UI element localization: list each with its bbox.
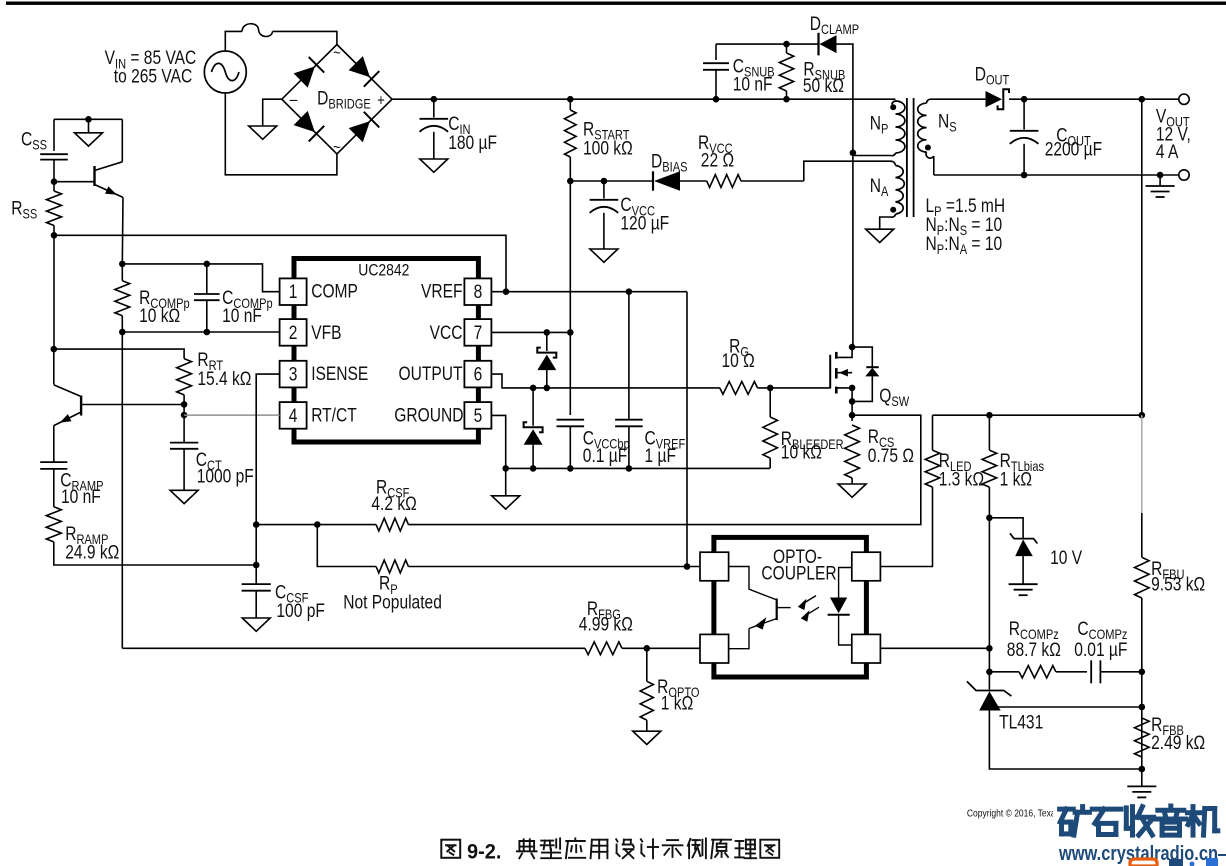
resistor RCSF 4.2k <box>256 476 417 531</box>
resistor RRAMP 24.9k <box>46 507 256 565</box>
capacitor CCSF 100pF <box>242 581 325 621</box>
svg-text:1: 1 <box>289 281 298 303</box>
resistor RSTART 100k <box>565 99 633 181</box>
svg-text:RT/CT: RT/CT <box>311 404 357 426</box>
diode DBIAS <box>651 150 687 191</box>
ground: CIN <box>420 159 448 172</box>
wire: VOUT feedback drop <box>1141 99 1143 418</box>
earth ground: RFBB <box>1127 769 1156 797</box>
schottky diode D1 (VCC clamp) <box>537 332 556 388</box>
terminal VOUT- <box>1179 170 1189 180</box>
diode DOUT schottky <box>975 63 1010 109</box>
optocoupler box <box>714 537 867 677</box>
svg-text:5: 5 <box>474 404 483 426</box>
capacitor CRAMP 10nF <box>40 461 103 507</box>
wire: VCC feed line y181 <box>567 178 653 185</box>
earth ground: output return <box>1146 175 1175 197</box>
svg-text:2200 µF: 2200 µF <box>1045 138 1102 160</box>
svg-text:3: 3 <box>289 363 298 385</box>
svg-text:50 kΩ: 50 kΩ <box>803 75 844 97</box>
capacitor CVREF 1uF <box>615 292 686 469</box>
resistor RFBG 4.99k <box>122 597 700 654</box>
wire: opto LED cathode to TL431 <box>880 518 992 690</box>
zener diode 10V <box>986 515 1082 585</box>
wire: pin7 VCC net <box>491 329 573 336</box>
svg-text:VCC: VCC <box>430 321 463 343</box>
junction dots on HV bus <box>431 96 790 103</box>
svg-text:10 kΩ: 10 kΩ <box>139 305 180 327</box>
svg-text:22 Ω: 22 Ω <box>701 149 734 171</box>
svg-text:1 kΩ: 1 kΩ <box>1000 468 1032 490</box>
transistor Q1 (soft start upper) <box>54 119 123 264</box>
svg-text:GROUND: GROUND <box>394 404 463 426</box>
resistor RRT 15.4k <box>54 349 252 405</box>
svg-text:4 A: 4 A <box>1156 141 1179 163</box>
wire: VREF column down to optocoupler <box>686 292 688 567</box>
svg-text:24.9 kΩ: 24.9 kΩ <box>65 541 119 563</box>
wire: VOUT rail to RLED and RTLbias <box>933 412 1146 419</box>
bridge rectifier DBRIDGE <box>282 45 392 157</box>
svg-text:15.4 kΩ: 15.4 kΩ <box>197 368 251 390</box>
svg-text:~: ~ <box>333 45 341 62</box>
transistor Q2 (soft start lower) <box>51 346 185 461</box>
label VIN = 85 VAC to 265 VAC <box>105 47 197 87</box>
transformer aux winding NA <box>870 161 904 229</box>
svg-text:120 µF: 120 µF <box>620 212 669 234</box>
svg-text:7: 7 <box>474 321 483 343</box>
svg-text:1 µF: 1 µF <box>645 445 676 467</box>
svg-text:0.1 µF: 0.1 µF <box>583 445 627 467</box>
ground: CCT <box>170 490 198 503</box>
svg-text:to 265 VAC: to 265 VAC <box>114 65 192 87</box>
capacitor CIN 180uF <box>420 99 497 159</box>
wire: DCLAMP to primary bottom / MOSFET drain <box>837 44 857 347</box>
label VOUT 12V 4A <box>1156 105 1191 163</box>
svg-text:10 nF: 10 nF <box>222 305 262 327</box>
svg-text:TL431: TL431 <box>999 711 1043 733</box>
wire: soft-start to VREF <box>51 232 506 292</box>
wire: pin1 COMP net <box>122 264 279 292</box>
svg-text:10 nF: 10 nF <box>733 73 773 95</box>
svg-text:100 pF: 100 pF <box>276 600 324 622</box>
wire: pin8 VREF net <box>491 288 687 295</box>
svg-text:9.53 kΩ: 9.53 kΩ <box>1151 573 1205 595</box>
capacitor CCT 1000pF <box>170 401 254 490</box>
IC pin names <box>311 280 463 426</box>
svg-text:VFB: VFB <box>311 321 341 343</box>
IC pin boxes with numbers <box>280 278 492 428</box>
transformer primary winding NP <box>853 99 905 155</box>
wire: analog ground bus <box>502 465 770 472</box>
capacitor COUT 2200uF <box>1010 99 1102 175</box>
resistor RTLbias 1k <box>982 415 1044 518</box>
optocoupler light arrows <box>798 596 819 622</box>
wire: snubber top rail <box>716 41 818 48</box>
ground: NA winding <box>866 229 894 242</box>
svg-text:~: ~ <box>333 139 341 156</box>
svg-text:OUTPUT: OUTPUT <box>398 363 462 385</box>
svg-text:www.crystalradio.cn: www.crystalradio.cn <box>1058 843 1218 865</box>
svg-text:2.49 kΩ: 2.49 kΩ <box>1151 732 1205 754</box>
svg-text:UC2842: UC2842 <box>358 261 409 280</box>
resistor RG 10ohm <box>720 335 830 394</box>
transformer secondary winding NS <box>918 99 957 175</box>
ground: soft-start top <box>54 116 122 146</box>
ground: bridge negative terminal <box>249 99 282 139</box>
optocoupler LED <box>828 568 852 646</box>
wire: pin4 RT/CT (gray) <box>184 414 280 416</box>
terminal VOUT+ <box>1179 94 1189 104</box>
wire: VFB column down to RFBG line <box>121 332 123 648</box>
svg-text:180 µF: 180 µF <box>448 131 497 153</box>
resistor RP not populated <box>317 525 700 613</box>
resistor ROPTO 1k <box>640 648 699 731</box>
earth ground: zener <box>1009 584 1038 595</box>
page top rule <box>6 2 1226 5</box>
resistor RSNUB 50k <box>779 44 845 99</box>
svg-text:4: 4 <box>289 404 298 426</box>
wire: output return rail <box>934 172 1179 179</box>
svg-text:10 kΩ: 10 kΩ <box>781 441 822 463</box>
resistor RFBU 9.53k <box>1135 415 1206 769</box>
wire: RSTART column to VCC and CVCCbp <box>569 181 571 415</box>
wire: RVCC to NA winding top <box>804 161 891 181</box>
ground: CVCC <box>590 249 618 262</box>
svg-text:0.75 Ω: 0.75 Ω <box>868 445 914 467</box>
capacitor CCOMPp 10nF <box>194 261 273 336</box>
diode DCLAMP <box>810 12 859 55</box>
resistor RSS <box>11 178 61 235</box>
schottky diode D2 (gate clamp) <box>524 388 543 469</box>
resistor RLED 1.3k <box>880 415 984 566</box>
body diode of QSW <box>852 347 879 401</box>
svg-text:1.3 kΩ: 1.3 kΩ <box>939 468 984 490</box>
svg-text:100 kΩ: 100 kΩ <box>583 137 633 159</box>
svg-text:10 nF: 10 nF <box>61 486 101 508</box>
svg-text:9-2.: 9-2. <box>467 840 501 864</box>
svg-text:8: 8 <box>474 281 483 303</box>
svg-text:88.7 kΩ: 88.7 kΩ <box>1007 639 1061 661</box>
svg-text:10 Ω: 10 Ω <box>722 350 755 372</box>
svg-text:4.2 kΩ: 4.2 kΩ <box>371 493 416 515</box>
shunt regulator TL431 <box>967 681 1142 769</box>
svg-text:6: 6 <box>474 363 483 385</box>
wire: soft-start rail down to Q2 <box>53 235 55 349</box>
svg-text:0.01 µF: 0.01 µF <box>1074 639 1127 661</box>
wire: rectified HV bus <box>392 98 893 100</box>
svg-text:VREF: VREF <box>421 280 463 302</box>
svg-text:COMP: COMP <box>311 280 358 302</box>
capacitor CVCC 120uF <box>590 181 670 249</box>
ground: bus symbol <box>492 468 520 509</box>
wire: pin3 ISENSE down <box>253 374 280 583</box>
wire: pin5 GROUND to ground bus <box>491 415 505 468</box>
optocoupler pin pads <box>700 552 880 663</box>
svg-text:4.99 kΩ: 4.99 kΩ <box>579 613 633 635</box>
label transformer params LP NP:NS <box>926 195 1006 258</box>
capacitor CCOMPz 0.01uF <box>1074 618 1145 684</box>
resistor RCS 0.75ohm <box>845 425 914 484</box>
svg-text:Not Populated: Not Populated <box>343 591 442 613</box>
resistor RCOMPp 10k <box>115 261 190 336</box>
ground: RCS <box>838 484 866 497</box>
watermark crystalradio <box>1053 799 1226 866</box>
wire: pin6 OUTPUT net <box>491 374 719 391</box>
wire: AC hot, source top to bridge top, with fuse bump <box>225 24 337 51</box>
svg-text:1000 pF: 1000 pF <box>197 465 254 487</box>
wire: TL431 ref to divider <box>989 704 1145 711</box>
capacitor CSNUB 10nF <box>703 44 775 99</box>
resistor RCOMPz 88.7k <box>986 618 1087 678</box>
wire: pin2 VFB net <box>122 331 279 333</box>
wire: current sense RCSF loop <box>408 415 920 524</box>
MOSFET QSW <box>830 344 909 421</box>
watermark logo fragments bottom edge <box>1130 858 1218 866</box>
resistor RFBB 2.49k <box>1135 714 1206 773</box>
ground: ROPTO <box>633 731 661 744</box>
wire: output positive rail <box>1009 96 1179 103</box>
resistor RBLEEDER 10k <box>763 385 844 469</box>
capacitor CVCCbp 0.1uF <box>557 420 630 469</box>
transformer core <box>907 98 914 217</box>
svg-text:ISENSE: ISENSE <box>311 363 368 385</box>
copyright notice <box>967 808 1157 819</box>
svg-text:1 kΩ: 1 kΩ <box>661 692 693 714</box>
AC source VIN with sine symbol <box>204 51 246 93</box>
ground: CCSF <box>242 618 270 631</box>
resistor RVCC 22ohm <box>680 132 804 188</box>
wire: NS top to DOUT <box>934 98 986 100</box>
wire: AC neutral, source bottom to bridge bottom <box>225 93 337 175</box>
capacitor CSS <box>21 119 68 181</box>
svg-text:10 V: 10 V <box>1050 547 1082 569</box>
optocoupler phototransistor <box>729 567 791 649</box>
svg-text:+: + <box>377 92 385 109</box>
svg-text:COUPLER: COUPLER <box>761 562 836 584</box>
caption: figure 9-2 title <box>441 838 779 863</box>
IC UC2842 outline <box>294 259 478 443</box>
svg-text:–: – <box>290 90 298 109</box>
svg-text:2: 2 <box>289 321 298 343</box>
